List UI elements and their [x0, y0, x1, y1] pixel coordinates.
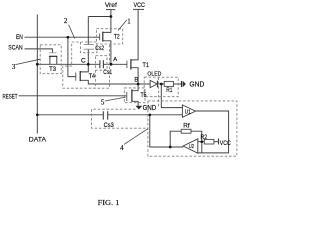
wire U1 output loop to U2 lower input: [196, 111, 229, 153]
svg-text:2: 2: [64, 17, 68, 25]
ground symbol at T5 source: [136, 106, 143, 110]
node junction dots: [36, 15, 203, 148]
wire T4 gate from EN: [68, 37, 76, 76]
leader line 2: [69, 25, 75, 39]
svg-text:1: 1: [127, 18, 131, 26]
wire U2 upper input to R2: [198, 141, 205, 143]
svg-text:Vref: Vref: [105, 2, 117, 9]
svg-text:B: B: [134, 78, 138, 84]
dashed box 2 compensation block: [63, 42, 110, 88]
wire Rf left leg: [170, 131, 181, 147]
wire T1 stubs VCC and to node B: [131, 9, 138, 84]
svg-text:RESET: RESET: [3, 93, 18, 100]
wire R1 to ground arrow: [173, 83, 181, 85]
resistor R2: [204, 139, 214, 144]
dashed box around Cs3: [92, 109, 148, 128]
svg-text:VCC: VCC: [134, 2, 146, 9]
svg-text:GND: GND: [189, 82, 204, 89]
svg-text:DATA: DATA: [29, 137, 47, 144]
svg-text:R2: R2: [201, 135, 208, 141]
dashed box 5 around T5: [124, 88, 145, 103]
dashed box 3 around T3: [40, 45, 61, 74]
svg-text:R1: R1: [166, 88, 173, 94]
capacitor Cs2: [84, 45, 94, 50]
wire T3 source drain stubs: [50, 56, 57, 64]
dashed divider right of OLED down to sense block: [158, 77, 160, 107]
svg-text:Cs1: Cs1: [103, 69, 112, 76]
transistor T5: [127, 89, 132, 102]
wire Rf right leg: [191, 131, 202, 153]
capacitor Cs1: [100, 60, 104, 68]
wire T4 drain up to node C: [80, 64, 88, 72]
svg-text:U1: U1: [185, 109, 191, 115]
capacitor Cs3: [103, 111, 107, 119]
wire OLED cathode to R1: [157, 83, 164, 85]
svg-text:5: 5: [101, 99, 105, 107]
svg-text:Cs2: Cs2: [95, 45, 104, 52]
transistor T4: [76, 71, 80, 81]
svg-text:T1: T1: [143, 62, 150, 69]
dashed box around Cs2: [80, 42, 97, 53]
ground symbol after R1 (bar and arrow): [182, 81, 186, 87]
svg-text:T4: T4: [89, 73, 96, 80]
wire OLED anode: [138, 83, 150, 85]
leader line 3: [15, 59, 40, 64]
op-amp U2: [183, 139, 198, 153]
leader line 5: [105, 97, 126, 101]
wire Cs2 bottom to node C: [87, 49, 89, 64]
wire Vref drop and top link: [88, 10, 111, 45]
wire node C/A row: [37, 63, 127, 65]
wire DATA row (broken at Cs3): [37, 114, 182, 116]
op-amp U1: [182, 105, 195, 117]
wire U2 output to data line: [150, 115, 183, 147]
transistor T3: [49, 53, 58, 57]
svg-text:T3: T3: [49, 66, 56, 73]
wire EN row: [25, 36, 100, 38]
svg-text:A: A: [113, 57, 117, 63]
svg-text:GND: GND: [143, 105, 157, 112]
dashed box 1 around T2: [96, 29, 122, 44]
diode OLED: [150, 80, 157, 87]
svg-text:OLED: OLED: [147, 71, 161, 77]
power VCC terminal bar bottom right: [218, 138, 220, 144]
wire RESET row: [19, 95, 127, 97]
svg-text:U2: U2: [189, 144, 194, 150]
dashed box around Cs1: [96, 56, 107, 70]
resistor R1: [164, 81, 173, 86]
svg-text:C: C: [81, 58, 86, 65]
leader line 1: [118, 20, 127, 31]
svg-text:SCAN: SCAN: [8, 45, 23, 52]
wire T5 drain to node B: [132, 84, 138, 91]
power VCC terminal bar: [133, 8, 144, 10]
dashed edge right of T4: [95, 70, 97, 88]
dashed box around OLED and R1: [144, 77, 178, 97]
wire sense node down to U1 input: [161, 84, 182, 108]
wire T4 source to node B row: [80, 80, 138, 84]
svg-text:Cs3: Cs3: [104, 122, 115, 129]
svg-text:Rf: Rf: [183, 123, 190, 129]
svg-text:4: 4: [120, 144, 124, 152]
svg-text:EN: EN: [16, 34, 23, 41]
svg-text:T2: T2: [114, 33, 120, 40]
svg-text:FIG. 1: FIG. 1: [98, 198, 120, 207]
leader line 4: [124, 129, 148, 145]
svg-text:VCC: VCC: [220, 140, 231, 147]
dashed box 4 around op-amp block: [148, 101, 237, 156]
transistor T2: [100, 32, 103, 42]
wire T5 source to ground: [132, 101, 138, 106]
wire R2 to VCC bar: [214, 141, 219, 143]
resistor Rf: [181, 129, 191, 133]
svg-text:T5: T5: [141, 92, 147, 99]
power Vref terminal bar: [106, 9, 115, 11]
wire SCAN row to T3 gate: [25, 49, 53, 53]
transistor T1: [127, 59, 131, 69]
svg-text:3: 3: [12, 63, 16, 71]
wire left data column vertical: [36, 15, 38, 134]
wire T2 drain/source stubs: [103, 17, 111, 65]
